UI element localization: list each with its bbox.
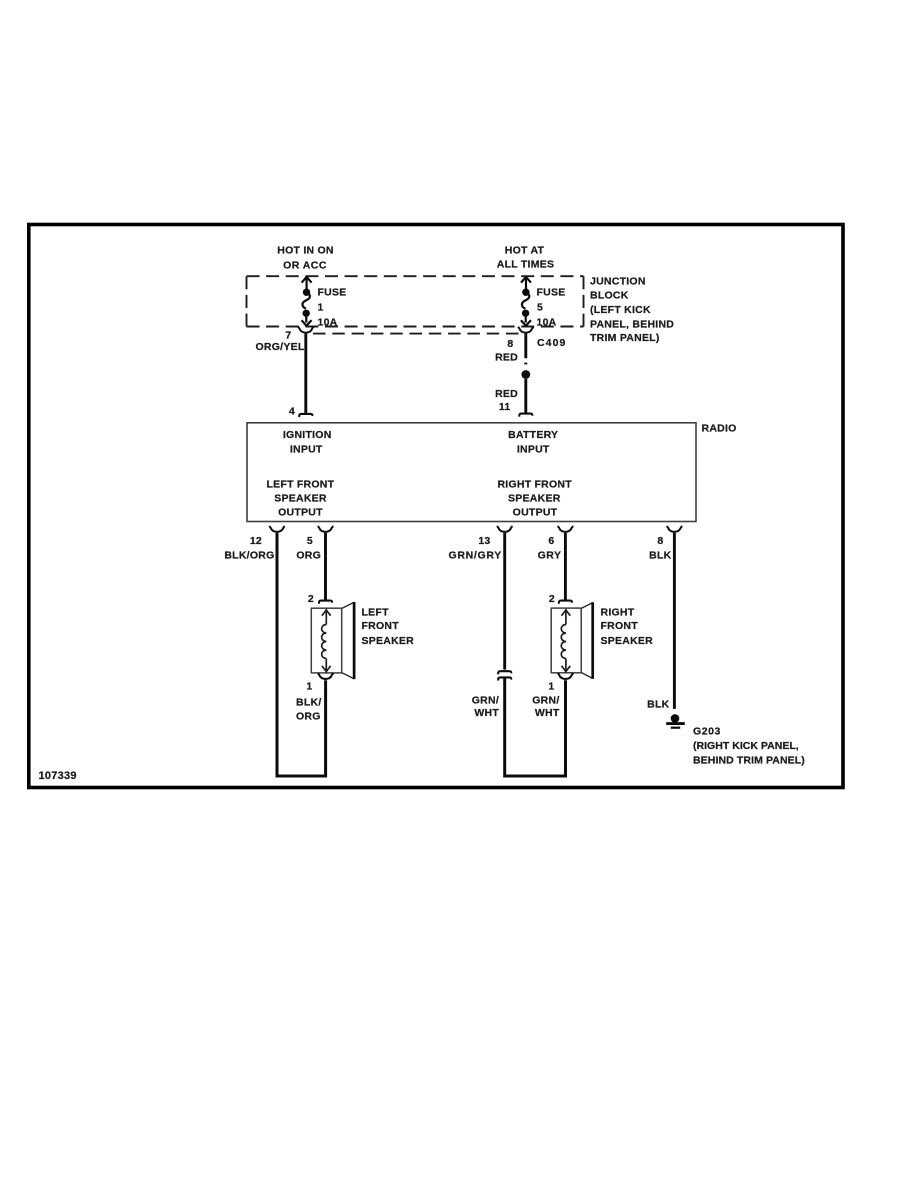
svg-text:6: 6: [548, 535, 554, 547]
wire RED lower segment: [524, 379, 527, 413]
svg-text:BLK/ORG: BLK/ORG: [224, 550, 274, 562]
svg-text:RED: RED: [495, 351, 518, 363]
node HOT IN ON / OR ACC: [277, 245, 334, 272]
wire GRY: pin6 to right speaker pin 2: [564, 533, 567, 600]
left speaker box: [311, 608, 341, 673]
svg-text:FUSE: FUSE: [318, 287, 347, 299]
svg-text:BLK: BLK: [649, 550, 671, 562]
svg-text:5: 5: [307, 535, 313, 547]
svg-text:JUNCTION: JUNCTION: [590, 275, 646, 287]
svg-text:ORG: ORG: [296, 550, 321, 562]
inline connector on GRN/GRY wire (female half): [498, 677, 511, 680]
svg-text:C409: C409: [537, 337, 567, 349]
left speaker label: [362, 607, 415, 648]
svg-text:(RIGHT KICK PANEL,: (RIGHT KICK PANEL,: [693, 740, 799, 752]
wire label BLK/ORG (bottom): [296, 697, 322, 723]
svg-text:1: 1: [548, 680, 554, 692]
svg-text:WHT: WHT: [535, 707, 560, 719]
radio pin 5 (female): [318, 526, 334, 532]
svg-text:11: 11: [499, 401, 511, 413]
fuse 1 labels: [318, 287, 347, 329]
svg-text:GRY: GRY: [538, 550, 562, 562]
radio pin 4 (male): [299, 414, 312, 417]
fuse 5 10A: [521, 276, 531, 326]
node HOT AT ALL TIMES: [497, 245, 554, 271]
svg-text:FUSE: FUSE: [537, 287, 566, 299]
svg-text:OUTPUT: OUTPUT: [278, 507, 323, 519]
right speaker label: [601, 607, 654, 648]
svg-text:2: 2: [549, 593, 555, 605]
wire GRN/GRY upper segment: [503, 533, 506, 670]
svg-text:10A: 10A: [537, 317, 557, 329]
radio ignition input label: [283, 429, 332, 456]
svg-text:SPEAKER: SPEAKER: [274, 493, 327, 505]
svg-text:13: 13: [478, 535, 490, 547]
svg-text:ALL TIMES: ALL TIMES: [497, 258, 554, 270]
svg-text:BLOCK: BLOCK: [590, 290, 629, 302]
svg-text:GRN/GRY: GRN/GRY: [448, 550, 502, 562]
left speaker pin 1 (female): [318, 673, 334, 679]
diagram frame: [29, 225, 843, 788]
svg-text:ORG: ORG: [296, 711, 321, 723]
svg-text:BLK/: BLK/: [296, 697, 322, 709]
wire label GRN/WHT (right speaker): [532, 695, 560, 720]
left speaker pin 2 (male): [319, 601, 332, 604]
svg-text:SPEAKER: SPEAKER: [601, 635, 654, 647]
connector pin 8 (female) C409: [518, 327, 534, 333]
svg-text:INPUT: INPUT: [290, 443, 323, 455]
svg-text:IGNITION: IGNITION: [283, 429, 332, 441]
svg-text:RADIO: RADIO: [702, 423, 737, 435]
svg-text:8: 8: [507, 338, 513, 350]
svg-text:HOT AT: HOT AT: [505, 245, 545, 257]
ground G203: [666, 714, 685, 728]
svg-text:BLK: BLK: [647, 699, 669, 711]
svg-text:PANEL, BEHIND: PANEL, BEHIND: [590, 319, 674, 331]
svg-text:7: 7: [285, 329, 291, 341]
svg-text:4: 4: [289, 405, 295, 417]
wire ORG/YEL (pin7 to radio pin4): [304, 334, 307, 414]
wire ORG: pin5 to left speaker pin 2: [324, 533, 327, 600]
inline connector on GRN/GRY wire (male half): [498, 671, 511, 674]
ground label G203: [693, 725, 805, 766]
svg-text:10A: 10A: [318, 317, 338, 329]
svg-text:BEHIND TRIM PANEL): BEHIND TRIM PANEL): [693, 755, 805, 767]
connector C409 dashed band: [313, 333, 520, 335]
right speaker pin 1 (female): [558, 673, 574, 679]
wire BLK/ORG: pin12 down, bottom run, up to left speaker pin 1: [277, 533, 326, 776]
radio right front speaker output label: [497, 479, 572, 519]
wire BLK: pin8 to ground: [673, 533, 676, 709]
wire GRN/WHT: lower run to right speaker pin 1: [505, 678, 566, 776]
radio pin 12 (female): [269, 526, 285, 532]
svg-text:SPEAKER: SPEAKER: [508, 493, 561, 505]
left speaker cone: [342, 602, 354, 679]
fuse 1 10A: [302, 276, 312, 326]
svg-text:LEFT FRONT: LEFT FRONT: [266, 479, 334, 491]
right speaker box: [551, 608, 581, 673]
svg-text:FRONT: FRONT: [601, 620, 639, 632]
radio battery input label: [508, 429, 558, 456]
svg-text:INPUT: INPUT: [517, 443, 550, 455]
svg-text:HOT IN ON: HOT IN ON: [277, 245, 334, 257]
radio pin 11 (male): [519, 414, 532, 417]
wire RED small dash: [524, 363, 527, 365]
svg-text:OR ACC: OR ACC: [283, 260, 327, 272]
svg-text:1: 1: [318, 302, 324, 314]
svg-text:107339: 107339: [39, 770, 77, 782]
svg-text:RIGHT FRONT: RIGHT FRONT: [497, 479, 572, 491]
svg-text:RIGHT: RIGHT: [601, 607, 635, 619]
connector pin 7 (female): [298, 327, 314, 333]
wire RED upper segment: [524, 334, 527, 359]
radio left front speaker output label: [266, 479, 334, 519]
svg-text:2: 2: [308, 593, 314, 605]
right speaker pin 2 (male): [559, 601, 572, 604]
radio pin 13 (female): [497, 526, 513, 532]
junction block (dashed box): [247, 276, 584, 326]
splice dot on RED wire: [521, 370, 530, 379]
svg-text:G203: G203: [693, 725, 721, 737]
svg-text:OUTPUT: OUTPUT: [513, 507, 558, 519]
svg-text:TRIM PANEL): TRIM PANEL): [590, 332, 660, 344]
svg-text:LEFT: LEFT: [362, 607, 390, 619]
radio box: [247, 423, 696, 522]
svg-text:WHT: WHT: [474, 707, 499, 719]
svg-text:8: 8: [657, 535, 663, 547]
svg-text:12: 12: [250, 535, 262, 547]
right speaker coil + arrows: [561, 610, 570, 672]
radio pin 6 (female): [558, 526, 574, 532]
svg-text:BATTERY: BATTERY: [508, 429, 558, 441]
junction block label: [590, 275, 674, 344]
svg-text:GRN/: GRN/: [472, 695, 499, 707]
svg-text:1: 1: [306, 681, 312, 693]
svg-text:(LEFT KICK: (LEFT KICK: [590, 304, 651, 316]
svg-text:ORG/YEL: ORG/YEL: [255, 341, 304, 353]
svg-text:RED: RED: [495, 388, 518, 400]
fuse 5 labels: [537, 287, 566, 329]
svg-text:5: 5: [537, 302, 543, 314]
svg-text:SPEAKER: SPEAKER: [362, 635, 415, 647]
svg-text:GRN/: GRN/: [532, 695, 559, 707]
right speaker cone: [582, 602, 593, 679]
radio pin 8 (female): [667, 526, 683, 532]
wire label GRN/WHT (left of splice): [472, 695, 500, 720]
left speaker coil + arrows: [322, 610, 331, 672]
svg-text:FRONT: FRONT: [362, 620, 400, 632]
